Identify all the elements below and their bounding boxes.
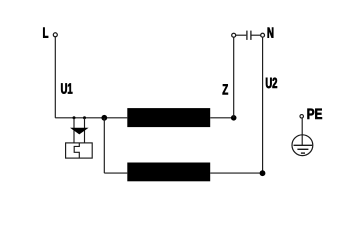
earth bar medium bbox=[297, 148, 308, 150]
wire PE stem bbox=[301, 118, 303, 145]
junction dot a bbox=[73, 116, 76, 119]
suppression diode triangle bbox=[70, 128, 89, 135]
capacitor left lead bbox=[236, 34, 247, 36]
capacitor right lead bbox=[252, 34, 261, 36]
capacitor plate right bbox=[250, 31, 252, 40]
wire choke top to node Z bbox=[210, 117, 234, 119]
thermal protector contact notch bbox=[74, 143, 79, 158]
node N label bbox=[268, 28, 274, 38]
terminal L bbox=[53, 33, 57, 37]
earth bar long bbox=[294, 144, 313, 146]
node U1 label bbox=[61, 83, 72, 93]
wire horizontal top-left bbox=[55, 117, 127, 119]
thermal protector box bbox=[66, 143, 93, 158]
choke winding top bbox=[127, 108, 210, 127]
junction Z bbox=[231, 115, 237, 121]
wire Z vertical bbox=[233, 37, 235, 118]
choke winding bottom bbox=[127, 163, 210, 182]
earth circle bbox=[292, 135, 313, 156]
junction N-U2 bbox=[260, 170, 266, 176]
earth bar short bbox=[301, 152, 305, 154]
wire from big junction down bbox=[103, 118, 105, 173]
wire bottom choke to N bbox=[210, 172, 262, 174]
terminal PE bbox=[300, 115, 304, 119]
wire L vertical bbox=[54, 37, 56, 118]
node PE label bbox=[307, 109, 321, 119]
wire N vertical bbox=[262, 37, 264, 173]
capacitor plate left bbox=[246, 31, 248, 40]
junction big bbox=[101, 115, 107, 121]
node L label bbox=[43, 28, 48, 38]
wire down to protector left bbox=[73, 118, 75, 144]
capacitor right terminal bbox=[261, 33, 265, 37]
node Z label bbox=[223, 84, 228, 94]
capacitor left terminal bbox=[232, 33, 236, 37]
wire to bottom choke bbox=[104, 172, 127, 174]
node U2 label bbox=[266, 78, 277, 88]
junction dot b bbox=[83, 116, 86, 119]
wire down to protector right bbox=[84, 118, 86, 144]
